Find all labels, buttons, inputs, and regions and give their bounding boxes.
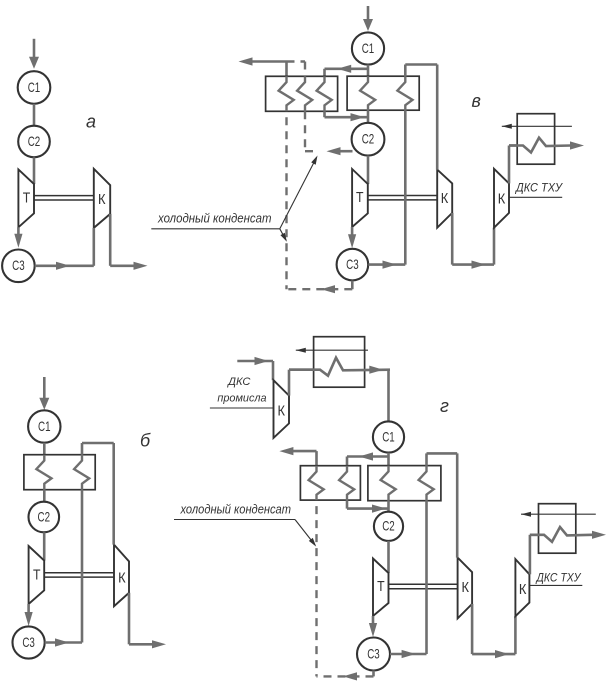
turbine T (scheme v) [352,169,368,227]
svg-text:С1: С1 [362,40,375,56]
left HX coil2 (scheme g) [339,466,354,500]
label underline (scheme g) [174,519,295,521]
right HX coil1 (scheme g) [381,466,396,501]
branch C1 to left HX coil3 (scheme v) [325,68,369,71]
wire C1 down (scheme g) [387,453,390,466]
svg-text:б: б [140,431,151,451]
compressor K (scheme v) [437,170,452,228]
svg-text:ДКС ТХУ: ДКС ТХУ [535,573,582,585]
turbine outlet wire (scheme g) [372,616,375,627]
svg-text:промисла: промисла [217,393,266,405]
coil2 bottom wire to C2 line (scheme g) [346,500,349,509]
aftercooler (scheme g) [539,504,576,554]
separator C2 (scheme b) [29,502,60,533]
wire C2 to turbine (scheme v) [367,156,370,184]
DKS compressor K (scheme v) [494,169,509,228]
recuperator top wire to K (scheme b) [81,443,84,455]
wire C3 to recuperator riser (scheme v) [368,263,405,266]
right HX coil2 (scheme v) [397,76,412,110]
compressor outlet wire (scheme a) [109,214,112,266]
left heat exchanger (scheme g) [300,466,360,500]
field cooler air line (scheme g) [296,349,368,351]
scheme a: inlet gas wire [33,39,36,57]
DKS TXU outlet riser (scheme g) [529,535,532,575]
wire right HX to C2 (scheme v) [367,110,370,123]
wire C3 to recuperator riser (scheme b) [45,641,82,644]
svg-text:С1: С1 [38,418,51,434]
turbine outlet wire (scheme a) [17,227,20,237]
aftercooler air line (scheme g) [521,513,596,515]
svg-text:Т: Т [377,579,385,595]
coil1 top riser (scheme v) [285,62,288,77]
separator C3 (scheme v) [337,249,369,281]
callout to condensate riser (scheme v) [280,229,286,240]
DKS outlet riser to cooler (scheme g) [288,370,291,396]
wire HX to C2 (scheme b) [43,490,46,502]
svg-text:С1: С1 [382,428,395,444]
recuperator top wire to K (scheme g) [425,453,428,465]
turbine T (scheme a) [18,169,34,227]
separator C2 (scheme a) [18,126,50,158]
svg-text:ДКС ТХУ: ДКС ТХУ [514,183,563,195]
scheme g: DKS field inlet wire [237,360,273,363]
svg-text:С1: С1 [28,79,41,95]
compressor outlet wire (scheme b) [128,593,131,645]
condensate wire from C2 (scheme v) [339,150,353,153]
aftercooler (scheme v) [517,114,554,165]
svg-text:С2: С2 [382,518,395,534]
separator C1 (scheme v) [352,32,384,64]
compressor K (scheme g) [458,558,473,619]
wire C2 to turbine (scheme a) [33,157,36,184]
HX gas coil (scheme b) [36,455,51,490]
wire C1 down (scheme v) [367,65,370,77]
condensate return dashed from C3 (scheme v) [351,281,354,290]
condensate dashed riser (scheme g) [315,500,317,676]
compressor outlet wire (scheme v) [451,213,454,265]
shaft T-K (scheme b) [44,572,114,574]
separator C2 (scheme g) [374,512,403,541]
shaft T-K (scheme g) [389,583,458,585]
left HX coil1 (scheme g) [309,466,324,500]
svg-text:холодный конденсат: холодный конденсат [157,211,272,226]
separator C1 (scheme b) [28,410,60,442]
wire C3 to compressor inlet (scheme a) [35,264,94,267]
svg-text:К: К [278,404,286,420]
separator C1 (scheme a) [18,71,51,104]
condensate return dashed from C3 (scheme g) [372,671,375,677]
svg-text:Т: Т [23,191,31,207]
svg-text:а: а [86,112,96,132]
svg-text:С2: С2 [38,508,51,524]
svg-text:С3: С3 [367,645,380,661]
wire C1-C2 (scheme a) [33,104,36,126]
callout to C2 condensate (scheme v) [280,158,317,229]
DKS TXU inlet riser (scheme g) [514,616,517,654]
branch C1 to left HX coil2 (scheme g) [347,455,389,458]
heat exchanger (scheme b) [24,455,95,490]
label DKS line (scheme g) [210,407,274,409]
label DKS TXU line (scheme v) [509,196,562,198]
export wire with arrow (scheme v) [239,57,253,65]
field cooler coil and outlet (scheme g) [289,358,390,376]
recuperator riser (scheme g) [425,501,428,654]
svg-text:холодный конденсат: холодный конденсат [180,502,291,517]
aftercooler coil and outlet (scheme g) [530,527,592,542]
coil2 top riser dashed (scheme v) [304,62,306,77]
aftercooler coil and outlet (scheme v) [509,138,571,153]
dashed link coil1-coil2 top (scheme v) [287,60,306,62]
label DKS TXU line (scheme g) [529,584,582,586]
svg-text:К: К [441,191,449,207]
separator C1 (scheme g) [373,421,404,452]
compressor outlet wire (scheme g) [471,604,474,654]
shaft T-K (scheme v) [368,195,437,197]
svg-text:ДКС: ДКС [226,376,250,388]
right HX coil1 (scheme v) [360,76,375,110]
left HX coil3 (scheme v) [317,76,332,111]
svg-text:С2: С2 [28,133,41,149]
wire C2 to turbine (scheme g) [387,541,390,573]
DKS outlet riser (scheme v) [508,146,511,184]
field cooler (scheme g) [314,337,365,388]
coil2 bottom dashed riser (scheme v) [304,111,306,151]
right HX coil2 (scheme g) [419,466,434,501]
aftercooler air line (scheme v) [502,125,572,127]
turbine outlet wire (scheme v) [351,227,354,237]
left heat exchanger (scheme v) [266,76,338,111]
left HX coil1 (scheme v) [279,76,294,111]
scheme v: inlet gas wire [367,6,370,21]
separator C3 (scheme a) [2,249,35,282]
turbine T (scheme b) [29,546,45,604]
svg-text:Т: Т [33,568,41,584]
svg-text:в: в [472,91,481,111]
scheme b: inlet gas wire [43,377,46,399]
shaft T-K (scheme a) [34,195,94,197]
svg-text:К: К [519,582,527,598]
compressor K (scheme b) [114,545,129,607]
separator C3 (scheme g) [357,638,390,671]
wire C3 to recuperator riser (scheme g) [390,653,427,656]
svg-text:К: К [118,571,126,587]
HX recuperator coil (scheme b) [74,455,89,490]
svg-text:С3: С3 [22,634,35,650]
recuperator riser (scheme b) [81,490,84,643]
recuperator top wire to K (scheme v) [404,65,407,77]
svg-text:К: К [461,580,469,596]
separator C3 (scheme b) [13,626,45,658]
svg-text:С3: С3 [346,256,359,272]
label underline (scheme v) [151,228,279,230]
wire cooler to C1 (scheme g) [387,370,390,422]
separator C2 (scheme v) [352,123,385,156]
svg-text:С3: С3 [12,257,25,273]
coil3 bottom wire to C2 line (scheme v) [323,111,326,117]
DKS TXU compressor K (scheme g) [515,559,529,616]
right heat exchanger (scheme g) [368,466,441,501]
wire C2 to turbine (scheme b) [43,532,46,560]
DKS inlet riser (scheme v) [493,228,496,265]
wire right HX to C2 (scheme g) [387,501,390,512]
right heat exchanger (scheme v) [347,76,419,110]
export wire with arrow (scheme g) [279,447,293,455]
coil1 condensate dashed riser (scheme v) [285,111,287,289]
compressor K (scheme a) [94,169,110,228]
wire C1 to HX (scheme b) [43,443,46,455]
svg-text:К: К [498,192,506,208]
compressor inlet riser (scheme a) [93,228,96,266]
callout to condensate riser (scheme g) [295,520,315,546]
recuperator riser (scheme v) [404,110,407,264]
turbine outlet wire (scheme b) [27,604,30,615]
DKS field compressor K (scheme g) [274,380,290,438]
svg-text:К: К [98,192,106,208]
turbine T (scheme g) [373,559,389,617]
left HX coil2 (scheme v) [297,76,312,111]
svg-text:г: г [440,396,449,416]
svg-text:С2: С2 [362,131,375,147]
svg-text:Т: Т [356,190,364,206]
